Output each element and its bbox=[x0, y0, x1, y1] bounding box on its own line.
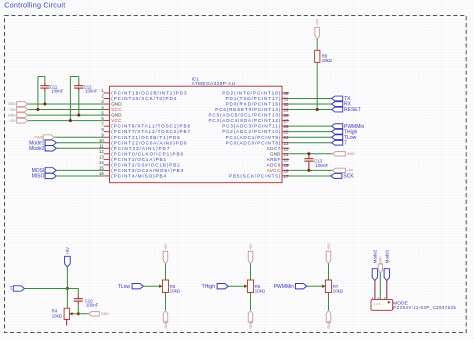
supply flag +5V R5 top bbox=[163, 251, 168, 263]
pin 8 stub bbox=[104, 131, 110, 133]
svg-text:13: 13 bbox=[99, 155, 104, 160]
flag MISO bbox=[45, 173, 56, 178]
R4 wiper arrow bbox=[70, 312, 73, 315]
svg-text:25: 25 bbox=[284, 130, 289, 135]
CN1 pin 1 wire bbox=[374, 281, 376, 300]
svg-text:10kΩ: 10kΩ bbox=[333, 288, 344, 293]
capacitor C10 bbox=[74, 298, 83, 300]
svg-text:(PCINT21/OC0B/T1)PD5: (PCINT21/OC0B/T1)PD5 bbox=[111, 135, 180, 140]
svg-text:T: T bbox=[344, 140, 347, 146]
pin 10 stub bbox=[104, 142, 110, 144]
svg-text:10kΩ: 10kΩ bbox=[170, 288, 181, 293]
junction C10 bottom bbox=[77, 312, 80, 315]
svg-text:100nF: 100nF bbox=[86, 303, 99, 308]
svg-text:23: 23 bbox=[284, 141, 289, 146]
pin 9 stub bbox=[104, 136, 110, 138]
supply flag GND bbox=[17, 102, 28, 107]
wire TLow bbox=[289, 136, 331, 138]
flag Mode2 bbox=[372, 269, 377, 281]
pin 25 stub bbox=[282, 131, 289, 133]
junction C11 gnd bbox=[43, 103, 46, 106]
svg-text:+5V: +5V bbox=[9, 108, 16, 112]
junction C13 bottom bbox=[307, 169, 310, 172]
wire R6 top bbox=[250, 264, 252, 280]
flag PWM bbox=[43, 135, 54, 140]
wire SCK bbox=[289, 175, 331, 177]
pin 12 stub bbox=[104, 153, 110, 155]
flag TLow bbox=[332, 135, 343, 140]
flag MOSI bbox=[45, 168, 56, 173]
svg-text:PC6(RESET#/PCINT14): PC6(RESET#/PCINT14) bbox=[215, 107, 280, 112]
svg-text:16: 16 bbox=[99, 171, 104, 176]
junction C12 gnd bbox=[77, 114, 80, 117]
svg-text:+5V: +5V bbox=[327, 243, 331, 250]
wire +5V pin4 bbox=[28, 109, 104, 111]
supply flag GND R4 bbox=[88, 312, 99, 316]
potentiometer R7 bbox=[325, 280, 331, 293]
flag TX bbox=[332, 96, 343, 101]
svg-text:T: T bbox=[10, 286, 13, 292]
svg-text:GND: GND bbox=[101, 312, 110, 316]
wire Mode1 bbox=[56, 142, 103, 144]
svg-text:GND: GND bbox=[249, 320, 253, 329]
svg-text:(PCINT20/XCK/T0)PD4: (PCINT20/XCK/T0)PD4 bbox=[111, 96, 176, 101]
pin 1 stub bbox=[104, 92, 110, 94]
pin 22 stub bbox=[282, 147, 289, 149]
svg-text:1 2 3 →: 1 2 3 → bbox=[374, 302, 385, 306]
svg-text:AREF: AREF bbox=[267, 157, 281, 162]
wire AVCC row bbox=[289, 169, 332, 171]
wire MISO bbox=[56, 175, 103, 177]
wire C12 right leg upper bbox=[78, 77, 80, 83]
svg-text:100nF: 100nF bbox=[315, 163, 328, 168]
svg-text:19: 19 bbox=[284, 163, 289, 168]
pin 3 stub bbox=[104, 103, 110, 105]
pin 23 stub bbox=[282, 142, 289, 144]
pin 4 stub bbox=[104, 109, 110, 111]
svg-text:+5V: +5V bbox=[347, 169, 354, 173]
wire R7 top bbox=[328, 264, 330, 280]
pin 29 stub bbox=[282, 109, 289, 111]
C13 pin lower bbox=[308, 161, 310, 170]
R4 bottom stub bbox=[66, 319, 68, 325]
svg-text:PD1(TXD/PCINT17): PD1(TXD/PCINT17) bbox=[226, 96, 281, 101]
svg-text:24: 24 bbox=[284, 135, 289, 140]
supply flag GND mode bbox=[378, 264, 382, 273]
svg-text:(PCINT3/OC2A/MOSI)PB3: (PCINT3/OC2A/MOSI)PB3 bbox=[111, 168, 183, 173]
wire R8 to RESET bbox=[316, 62, 318, 109]
C13 pin upper bbox=[308, 154, 310, 159]
svg-text:(PCINT6/XTAL1/TOSC1)PB6: (PCINT6/XTAL1/TOSC1)PB6 bbox=[111, 124, 190, 129]
wire C10 lower bbox=[77, 305, 79, 314]
supply flag GND R6 bottom bbox=[248, 310, 253, 322]
svg-text:TLow: TLow bbox=[118, 284, 131, 290]
svg-text:(PCINT19/OC2B/INT1)PD3: (PCINT19/OC2B/INT1)PD3 bbox=[111, 91, 187, 96]
potentiometer R6 bbox=[247, 280, 253, 293]
wire C11 top rail bbox=[38, 76, 45, 78]
C11 pin upper bbox=[44, 83, 46, 86]
svg-text:32: 32 bbox=[284, 91, 289, 96]
pin 32 stub bbox=[282, 92, 289, 94]
wire Mode2 bbox=[56, 147, 103, 149]
pin 7 stub bbox=[104, 125, 110, 127]
pin 30 stub bbox=[282, 103, 289, 105]
svg-text:(PCINT23/AIN1)PD7: (PCINT23/AIN1)PD7 bbox=[111, 146, 170, 151]
CN1 pin 3 wire bbox=[386, 281, 388, 300]
junction C12 vcc bbox=[69, 119, 72, 122]
flag TLow bbox=[132, 284, 143, 289]
svg-text:Mode1: Mode1 bbox=[385, 249, 390, 263]
svg-text:GND: GND bbox=[347, 152, 356, 156]
R5 wiper arrow bbox=[159, 285, 162, 288]
svg-text:15: 15 bbox=[99, 166, 104, 171]
supply flag GND right bbox=[332, 152, 345, 156]
svg-text:SCK: SCK bbox=[343, 174, 354, 180]
wire RX bbox=[289, 103, 331, 105]
pin 18 stub bbox=[282, 169, 289, 171]
svg-text:GND: GND bbox=[270, 151, 281, 156]
svg-text:PWM: PWM bbox=[34, 135, 43, 139]
svg-text:PZ254V-11-03P_C2937625: PZ254V-11-03P_C2937625 bbox=[393, 305, 456, 310]
flag THigh bbox=[217, 284, 228, 289]
svg-text:14: 14 bbox=[99, 160, 104, 165]
supply flag +5V R6 top bbox=[248, 251, 253, 263]
wire C12 top rail bbox=[70, 76, 78, 78]
flag +5V node T bbox=[65, 256, 71, 267]
svg-text:(PCINT4/MISO)PB4: (PCINT4/MISO)PB4 bbox=[111, 173, 166, 178]
wire C12 left leg bbox=[69, 77, 71, 121]
wire +5V pin6 bbox=[28, 120, 104, 122]
wire TLow to R5 bbox=[143, 285, 159, 287]
svg-text:28: 28 bbox=[284, 113, 289, 118]
svg-text:PC1(ADC1/PCINT9): PC1(ADC1/PCINT9) bbox=[226, 135, 281, 140]
wire GND pin5 bbox=[28, 114, 104, 116]
pin 19 stub bbox=[282, 164, 289, 166]
svg-text:26: 26 bbox=[284, 124, 289, 129]
R6 wiper arrow bbox=[244, 285, 247, 288]
pin 5 stub bbox=[104, 114, 110, 116]
wire C11 left leg bbox=[37, 77, 39, 110]
wire R4 top bbox=[66, 289, 68, 309]
svg-text:10: 10 bbox=[99, 138, 104, 143]
wire GND pin3 bbox=[28, 103, 104, 105]
supply flag GND R7 bottom bbox=[326, 310, 331, 322]
pin 2 stub bbox=[104, 97, 110, 99]
svg-text:Mode2: Mode2 bbox=[373, 249, 378, 263]
pin 14 stub bbox=[104, 164, 110, 166]
capacitor C13 bbox=[304, 158, 313, 160]
IC IC1 body bbox=[110, 86, 283, 183]
svg-text:PB5(SCK/PCINT5): PB5(SCK/PCINT5) bbox=[229, 173, 281, 178]
wire node to C10 bbox=[67, 288, 78, 290]
svg-text:20: 20 bbox=[284, 157, 289, 162]
C12 pin lower bbox=[78, 88, 80, 91]
pin 15 stub bbox=[104, 169, 110, 171]
flag RESET bbox=[332, 107, 343, 112]
svg-text:+5V: +5V bbox=[9, 119, 16, 123]
svg-text:18: 18 bbox=[284, 168, 289, 173]
svg-text:VCC: VCC bbox=[111, 107, 122, 112]
wire MOSI bbox=[56, 169, 103, 171]
supply flag +5V R7 top bbox=[326, 251, 331, 263]
svg-text:29: 29 bbox=[284, 108, 289, 113]
svg-text:11: 11 bbox=[99, 143, 104, 148]
wire R6 bottom bbox=[250, 293, 252, 311]
C10 pin upper bbox=[77, 295, 79, 298]
svg-text:PWMMin: PWMMin bbox=[274, 284, 294, 290]
svg-text:PD0(RXD/PCINT16): PD0(RXD/PCINT16) bbox=[226, 102, 281, 107]
CN1 pin1 mark bbox=[388, 301, 390, 303]
svg-text:+5V: +5V bbox=[316, 18, 320, 25]
pin 27 stub bbox=[282, 120, 289, 122]
supply flag +5V bbox=[17, 118, 28, 123]
svg-text:GND: GND bbox=[379, 256, 383, 264]
svg-text:GND: GND bbox=[327, 320, 331, 329]
svg-text:100nF: 100nF bbox=[51, 89, 64, 94]
pin 31 stub bbox=[282, 97, 289, 99]
C11 pin lower bbox=[44, 88, 46, 91]
svg-text:PC0(ADC0/PCINT8): PC0(ADC0/PCINT8) bbox=[226, 140, 281, 145]
wire PWM bbox=[54, 136, 103, 138]
svg-text:10kΩ: 10kΩ bbox=[322, 58, 333, 63]
svg-text:PD2(INT0/PCINT18): PD2(INT0/PCINT18) bbox=[222, 91, 281, 96]
pin 26 stub bbox=[282, 125, 289, 127]
pin 13 stub bbox=[104, 158, 110, 160]
supply flag GND R5 bottom bbox=[163, 310, 168, 322]
pin 20 stub bbox=[282, 158, 289, 160]
pin 11 stub bbox=[104, 147, 110, 149]
svg-text:12: 12 bbox=[99, 149, 104, 154]
potentiometer R5 bbox=[162, 280, 168, 293]
svg-text:RESET: RESET bbox=[344, 107, 361, 113]
svg-text:+5V: +5V bbox=[65, 247, 70, 255]
pin 24 stub bbox=[282, 136, 289, 138]
flag RX bbox=[332, 102, 343, 107]
potentiometer R4 bbox=[64, 308, 69, 319]
svg-text:+5V: +5V bbox=[249, 243, 253, 250]
resistor R8 bbox=[315, 50, 320, 62]
svg-text:ADC7: ADC7 bbox=[267, 146, 281, 151]
junction RESET bbox=[316, 108, 319, 111]
svg-text:10kΩ: 10kΩ bbox=[52, 313, 63, 318]
wire TX bbox=[289, 97, 331, 99]
svg-text:GND: GND bbox=[111, 102, 122, 107]
wire THigh to R6 bbox=[228, 285, 244, 287]
R7 wiper arrow bbox=[322, 285, 325, 288]
wire R5 bottom bbox=[165, 293, 167, 311]
svg-text:GND: GND bbox=[8, 102, 17, 106]
svg-text:Controlling Circuit: Controlling Circuit bbox=[4, 0, 65, 9]
wire flag to node bbox=[66, 267, 68, 289]
svg-text:10kΩ: 10kΩ bbox=[255, 288, 266, 293]
supply flag GND bbox=[17, 113, 28, 118]
svg-text:VCC: VCC bbox=[111, 118, 122, 123]
svg-text:Mode2: Mode2 bbox=[29, 146, 45, 152]
svg-text:21: 21 bbox=[284, 152, 289, 157]
svg-text:22: 22 bbox=[284, 146, 289, 151]
C12 pin upper bbox=[78, 83, 80, 86]
flag THigh bbox=[332, 129, 343, 134]
flag T bbox=[13, 286, 24, 291]
connector CN1 MODE bbox=[371, 299, 393, 310]
wire RESET bbox=[289, 109, 331, 111]
wire R5 top bbox=[165, 264, 167, 280]
flag PWMMin bbox=[332, 124, 343, 129]
supply flag +5V bbox=[17, 107, 28, 112]
pin 17 stub bbox=[282, 175, 289, 177]
wire node to T flag bbox=[24, 288, 67, 290]
svg-text:PC2(ADC2/PCINT10): PC2(ADC2/PCINT10) bbox=[222, 129, 281, 134]
flag PWMMin bbox=[296, 284, 307, 289]
svg-text:(PCINT0/CLKO/ICP1)PB0: (PCINT0/CLKO/ICP1)PB0 bbox=[111, 151, 183, 156]
svg-text:17: 17 bbox=[284, 174, 289, 179]
svg-text:GND: GND bbox=[164, 320, 168, 329]
wire C12 right leg lower bbox=[78, 91, 80, 115]
junction C13 top bbox=[307, 152, 310, 155]
wire C11 right leg lower bbox=[44, 91, 46, 104]
flag Mode2 bbox=[45, 146, 56, 151]
supply flag +5V right bbox=[332, 168, 345, 172]
capacitor C11 bbox=[40, 85, 49, 87]
svg-text:100nF: 100nF bbox=[85, 89, 98, 94]
svg-text:ADC6: ADC6 bbox=[267, 162, 281, 167]
svg-text:GND: GND bbox=[111, 113, 122, 118]
svg-text:(PCINT1/OC1A)PB1: (PCINT1/OC1A)PB1 bbox=[111, 157, 166, 162]
wire GND row bbox=[289, 153, 332, 155]
flag T bbox=[332, 140, 343, 145]
flag SCK bbox=[331, 174, 342, 179]
junction C11 vcc bbox=[36, 108, 39, 111]
wire PWMMin to R7 bbox=[307, 285, 323, 287]
wire THigh bbox=[289, 131, 331, 133]
svg-text:+5V: +5V bbox=[164, 243, 168, 250]
wire C10 upper bbox=[77, 289, 79, 296]
pin 6 stub bbox=[104, 120, 110, 122]
svg-text:AVCC: AVCC bbox=[267, 168, 281, 173]
svg-text:GND: GND bbox=[8, 113, 17, 117]
svg-text:PC3(ADC3/PCINT11): PC3(ADC3/PCINT11) bbox=[222, 124, 281, 129]
node T junction bbox=[66, 287, 69, 290]
wire T bbox=[289, 142, 331, 144]
svg-text:(PCINT2/SS#/OC1B)PB2: (PCINT2/SS#/OC1B)PB2 bbox=[111, 162, 180, 167]
svg-text:(PCINT7/XTAL2/TOSC2)PB7: (PCINT7/XTAL2/TOSC2)PB7 bbox=[111, 129, 190, 134]
wire R4 wiper bbox=[72, 313, 88, 315]
pin 21 stub bbox=[282, 153, 289, 155]
wire PWMMin bbox=[289, 125, 331, 127]
wire R7 bottom bbox=[328, 293, 330, 311]
pin 16 stub bbox=[104, 175, 110, 177]
svg-text:27: 27 bbox=[284, 119, 289, 124]
pin 28 stub bbox=[282, 114, 289, 116]
svg-text:THigh: THigh bbox=[202, 284, 216, 290]
CN1 pin 2 wire bbox=[379, 273, 381, 299]
flag Mode1 bbox=[45, 140, 56, 145]
flag Mode1 bbox=[384, 269, 389, 281]
svg-text:31: 31 bbox=[284, 96, 289, 101]
svg-text:PC4(ADC4/SDA/PCINT12): PC4(ADC4/SDA/PCINT12) bbox=[209, 118, 281, 123]
svg-text:MISO: MISO bbox=[32, 174, 45, 180]
capacitor C12 bbox=[74, 85, 83, 87]
supply +5V flag top bbox=[315, 27, 320, 39]
svg-text:30: 30 bbox=[284, 102, 289, 107]
wire flag to R8 bbox=[316, 39, 318, 50]
svg-text:PC5(ADC5/SCL/PCINT13): PC5(ADC5/SCL/PCINT13) bbox=[209, 113, 281, 118]
svg-text:(PCINT22/OC0A/AIN0)PD6: (PCINT22/OC0A/AIN0)PD6 bbox=[111, 140, 187, 145]
C10 pin lower bbox=[77, 301, 79, 304]
wire C11 right leg upper bbox=[44, 77, 46, 83]
svg-text:IC1: IC1 bbox=[192, 76, 200, 81]
